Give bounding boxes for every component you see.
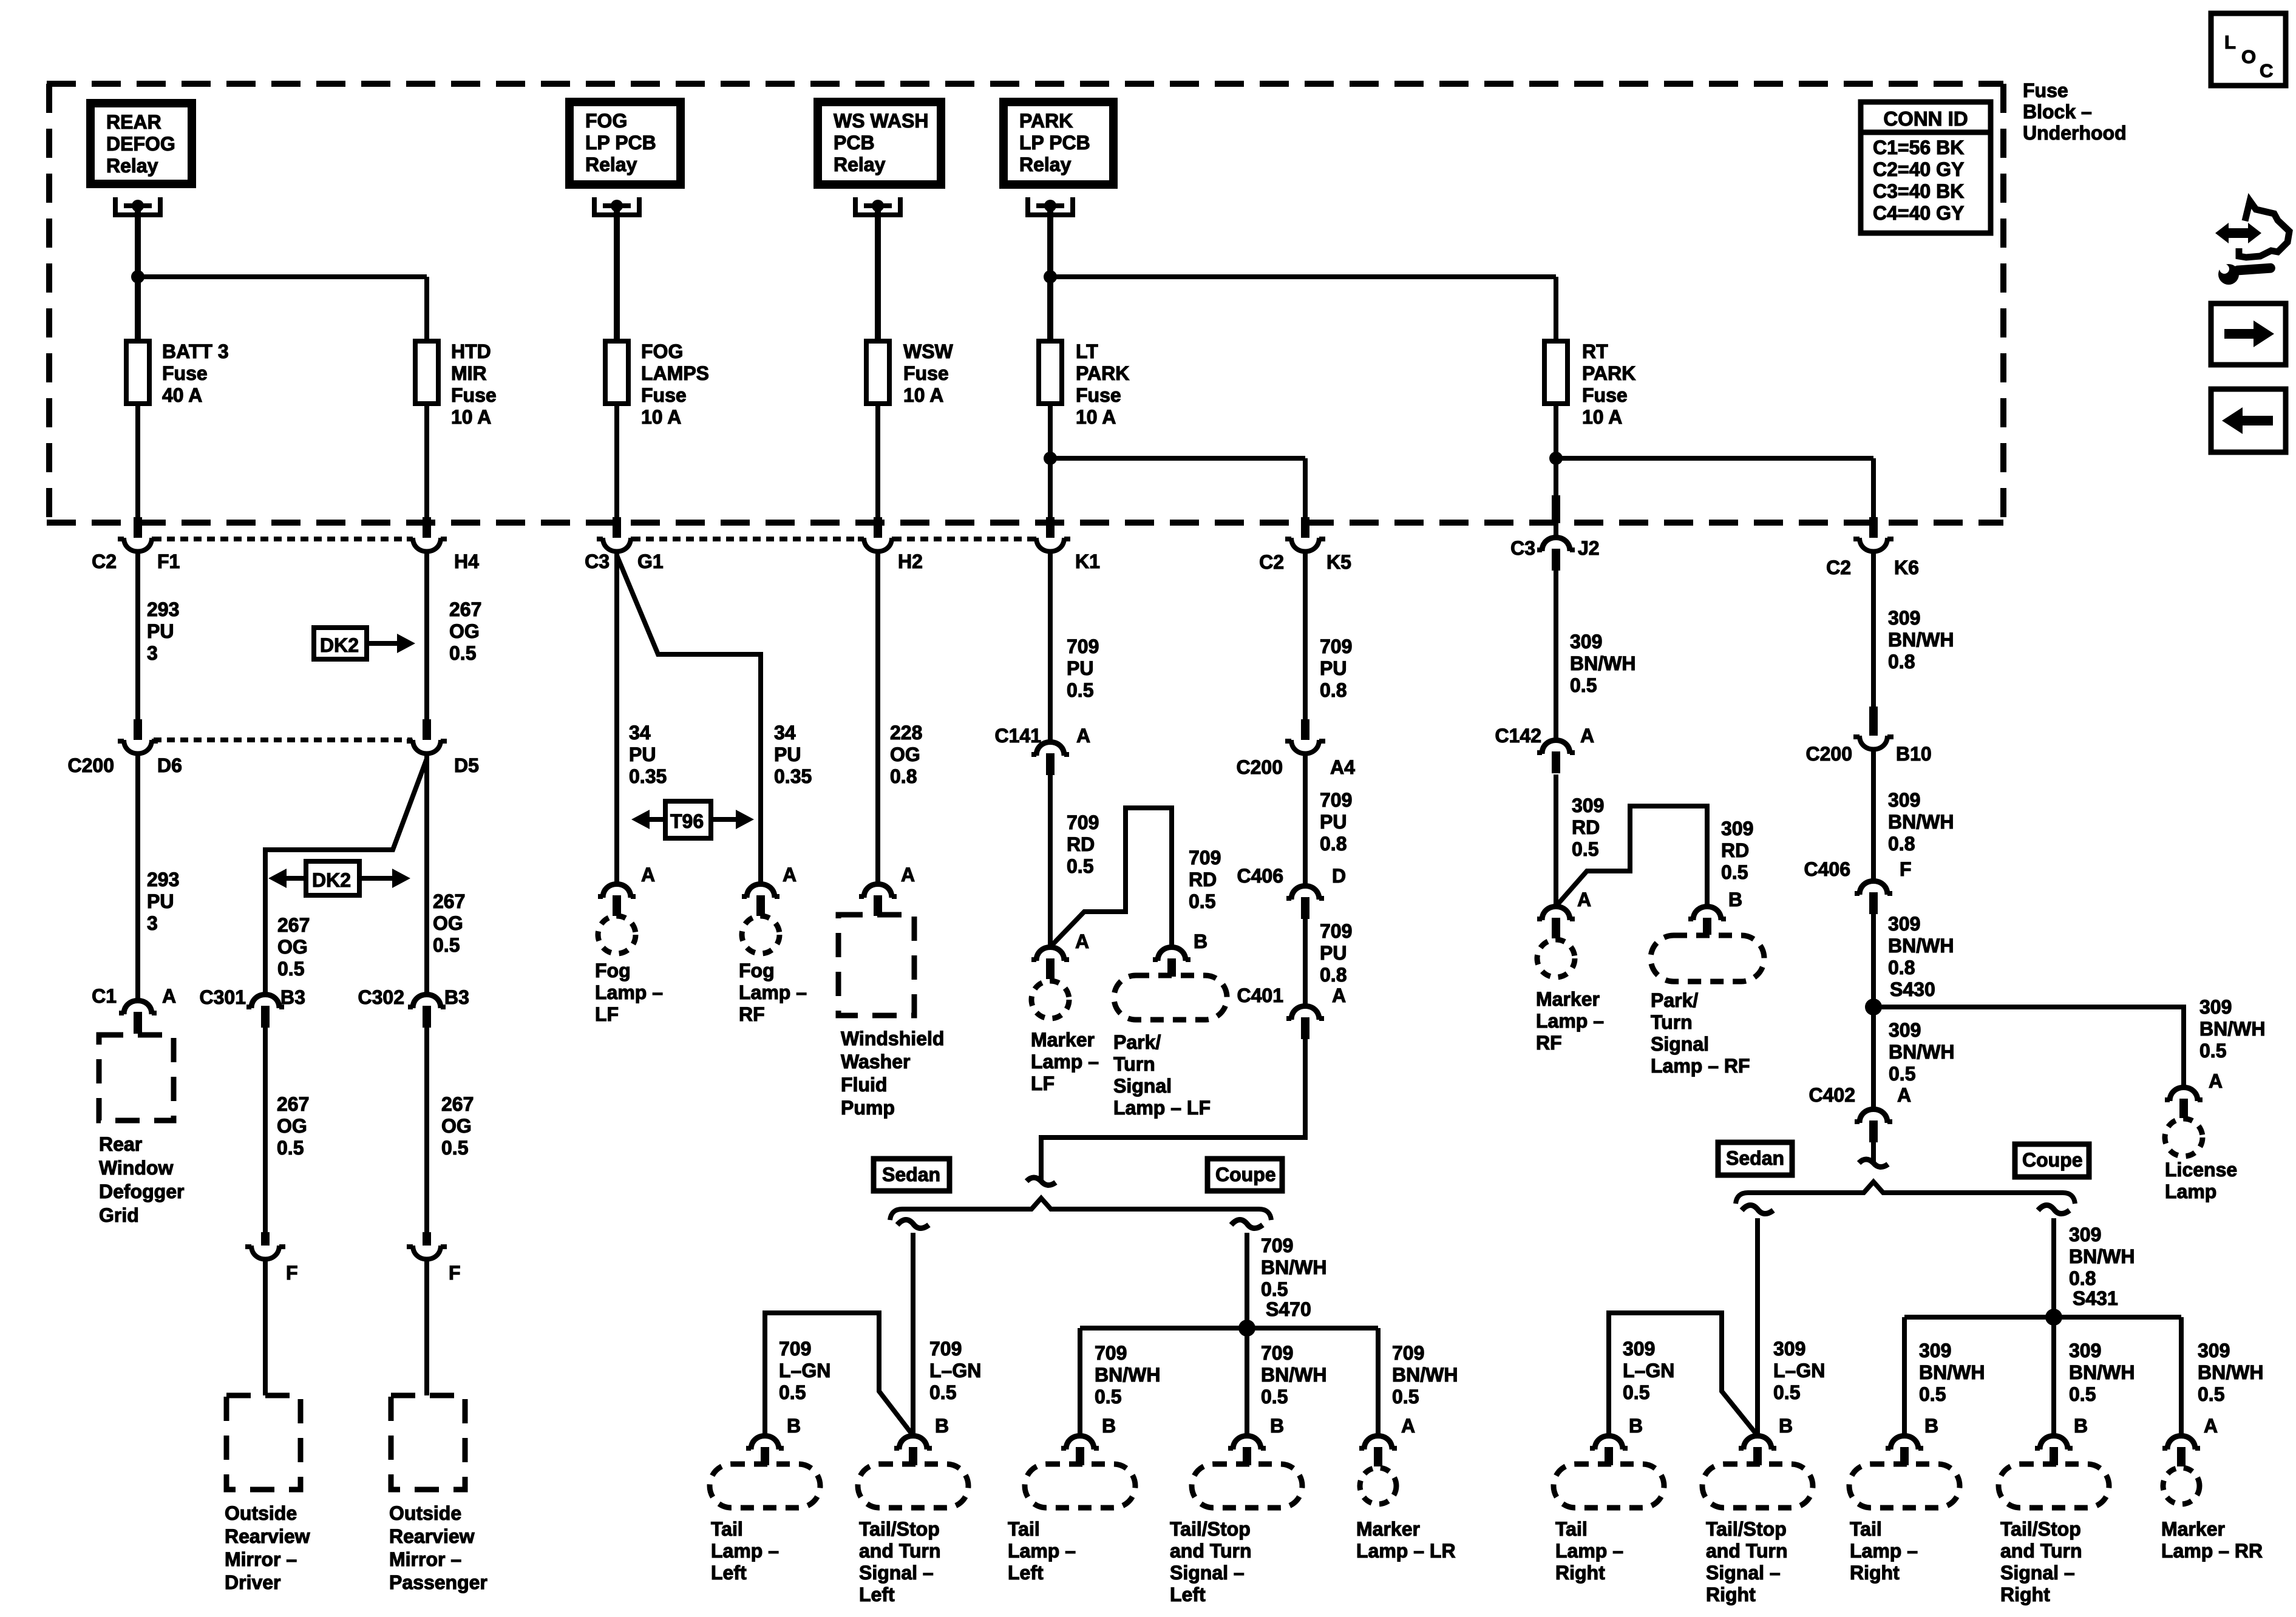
wire C142 to marker lamp RF [1554, 775, 1558, 906]
fuse HTD MIR 10A [415, 341, 438, 404]
svg-text:C401: C401 [1237, 985, 1284, 1006]
svg-text:Underhood: Underhood [2023, 122, 2127, 144]
svg-text:Tail/Stop: Tail/Stop [1706, 1518, 1787, 1540]
svg-text:DK2: DK2 [312, 869, 351, 891]
svg-text:Marker: Marker [1031, 1029, 1095, 1051]
svg-text:O: O [2241, 46, 2256, 67]
svg-text:BN/WH: BN/WH [2069, 1361, 2135, 1383]
svg-text:709: 709 [1392, 1342, 1424, 1364]
svg-text:BN/WH: BN/WH [1888, 629, 1954, 651]
wire 293 PU F1 to C200 D6 [135, 552, 140, 719]
svg-text:BN/WH: BN/WH [1919, 1361, 1985, 1383]
svg-text:Fog: Fog [595, 960, 631, 981]
svg-text:WS WASH: WS WASH [834, 110, 928, 132]
wire REAR DEFOG relay to BATT 3 fuse [135, 208, 141, 341]
break curl coupe drop right [2038, 1205, 2070, 1213]
svg-text:Defogger: Defogger [99, 1181, 184, 1202]
option brace left [890, 1198, 1271, 1220]
svg-text:Sedan: Sedan [882, 1164, 940, 1185]
connector C2 pin K5 [1301, 517, 1309, 538]
svg-text:0.5: 0.5 [779, 1381, 806, 1403]
svg-text:FOG: FOG [641, 341, 683, 362]
dashed line C200 D6-D5 [154, 737, 412, 742]
wire F to driver mirror [263, 1259, 268, 1395]
svg-text:Signal –: Signal – [1706, 1562, 1781, 1584]
svg-text:PU: PU [147, 890, 174, 912]
svg-text:A: A [901, 864, 915, 886]
svg-text:0.5: 0.5 [1572, 838, 1598, 860]
wire LT PARK fuse to K1 [1048, 404, 1053, 520]
svg-text:D5: D5 [454, 754, 479, 776]
wire to tail lamp right coupe [1902, 1317, 1907, 1436]
svg-text:0.5: 0.5 [1623, 1381, 1649, 1403]
svg-text:C1: C1 [92, 985, 117, 1007]
dotted connector line G1-H2 [633, 537, 862, 541]
svg-text:309: 309 [1721, 818, 1753, 839]
svg-text:309: 309 [1773, 1338, 1805, 1360]
svg-text:Tail: Tail [711, 1518, 743, 1540]
svg-text:10 A: 10 A [903, 384, 943, 406]
svg-text:0.5: 0.5 [1721, 861, 1748, 883]
wire S470 to tail stop left coupe [1245, 1328, 1249, 1436]
svg-text:Lamp – LF: Lamp – LF [1113, 1097, 1211, 1119]
svg-text:Pump: Pump [841, 1097, 895, 1119]
junction dot PARK feed [1044, 270, 1057, 283]
svg-text:BN/WH: BN/WH [1888, 811, 1954, 833]
svg-text:C142: C142 [1495, 725, 1542, 747]
connector C301 pin B3 [251, 995, 279, 1009]
wire S431 shelf [1904, 1315, 2181, 1320]
svg-text:PU: PU [147, 620, 174, 642]
connector C141 pin A [1036, 742, 1064, 756]
svg-text:B: B [787, 1415, 801, 1437]
marker DK2 double arrow [306, 861, 359, 895]
svg-text:G1: G1 [637, 551, 664, 572]
svg-text:S431: S431 [2073, 1287, 2118, 1309]
svg-text:Lamp –: Lamp – [711, 1540, 779, 1562]
svg-text:Tail: Tail [1008, 1518, 1040, 1540]
svg-text:Rearview: Rearview [389, 1525, 475, 1547]
wire to tail lamp left coupe [1078, 1328, 1082, 1436]
relay REAR DEFOG [86, 99, 196, 188]
wire S431 to tail stop right coupe [2051, 1317, 2056, 1436]
svg-text:0.5: 0.5 [1067, 855, 1093, 877]
svg-text:709: 709 [929, 1338, 962, 1360]
svg-text:LF: LF [1031, 1073, 1055, 1094]
svg-text:T96: T96 [670, 810, 704, 832]
svg-text:Lamp: Lamp [2165, 1181, 2216, 1202]
relay PARK LP PCB [999, 98, 1118, 189]
fuse WSW 10A [866, 341, 889, 404]
svg-text:A: A [1577, 889, 1591, 910]
svg-text:Signal: Signal [1113, 1075, 1172, 1097]
svg-text:C200: C200 [1806, 743, 1853, 765]
svg-text:0.5: 0.5 [1919, 1383, 1946, 1405]
svg-text:3: 3 [147, 912, 158, 934]
wire HTD MIR fuse to H4 [424, 404, 429, 520]
wire S430 to license lamp [1873, 1007, 2184, 1087]
svg-text:Left: Left [1170, 1584, 1206, 1605]
svg-text:Park/: Park/ [1113, 1031, 1161, 1053]
svg-text:PU: PU [629, 744, 656, 765]
svg-text:267: 267 [449, 598, 481, 620]
wire G1 branch to fog lamp RF [617, 555, 761, 884]
svg-text:and Turn: and Turn [2000, 1540, 2082, 1562]
svg-text:0.5: 0.5 [2199, 1040, 2226, 1062]
connector tail stop turn right sedan [1744, 1436, 1771, 1450]
svg-text:Rearview: Rearview [225, 1525, 310, 1547]
svg-text:B: B [1728, 889, 1742, 910]
svg-text:Signal –: Signal – [1170, 1562, 1245, 1584]
svg-text:C2: C2 [1259, 551, 1284, 573]
wire H2 to washer pump [875, 552, 880, 884]
svg-text:Rear: Rear [99, 1133, 142, 1155]
svg-text:40 A: 40 A [162, 384, 202, 406]
svg-text:Marker: Marker [1356, 1518, 1420, 1540]
connector C200 pin B10 [1869, 707, 1878, 736]
svg-text:BN/WH: BN/WH [2069, 1246, 2135, 1267]
svg-text:309: 309 [1888, 913, 1920, 935]
svg-text:Mirror –: Mirror – [225, 1548, 297, 1570]
wire FOG LAMPS fuse to G1 [614, 404, 619, 520]
relay WS WASH PCB [813, 98, 945, 189]
svg-text:RF: RF [1536, 1032, 1562, 1054]
svg-text:OG: OG [441, 1115, 472, 1137]
svg-text:Coupe: Coupe [1215, 1164, 1276, 1185]
wire RT PARK fuse to J2 [1554, 404, 1558, 520]
junction dot RT PARK branch [1549, 452, 1563, 465]
svg-text:HTD: HTD [451, 341, 491, 362]
splice S430 [1865, 998, 1882, 1015]
fuse BATT 3 40A [126, 341, 149, 404]
marker lamp LR bulb [1360, 1468, 1396, 1504]
svg-text:0.8: 0.8 [1320, 833, 1347, 855]
svg-text:10 A: 10 A [641, 406, 681, 428]
park turn signal lamp RF [1651, 935, 1764, 981]
wire S470 shelf [1080, 1326, 1378, 1331]
svg-text:0.5: 0.5 [441, 1137, 468, 1159]
svg-text:BN/WH: BN/WH [2198, 1361, 2263, 1383]
svg-text:B3: B3 [280, 986, 305, 1008]
connector marker lamp RR [2167, 1436, 2195, 1450]
svg-text:0.8: 0.8 [890, 765, 917, 787]
svg-text:L: L [2224, 32, 2236, 53]
outside rearview mirror passenger box [391, 1395, 465, 1490]
svg-text:A: A [2209, 1070, 2223, 1092]
svg-text:267: 267 [277, 1093, 309, 1115]
svg-text:RD: RD [1572, 816, 1600, 838]
wire WSW fuse to H2 [875, 404, 880, 520]
svg-text:709: 709 [1067, 812, 1099, 833]
svg-text:PARK: PARK [1076, 362, 1129, 384]
connector C3 pin J2 [1552, 495, 1560, 523]
svg-text:BN/WH: BN/WH [1392, 1364, 1458, 1386]
svg-text:709: 709 [1320, 920, 1352, 942]
svg-text:and Turn: and Turn [1170, 1540, 1252, 1562]
svg-text:C200: C200 [1237, 756, 1283, 778]
wire C401 to sedan coupe split [1041, 1039, 1305, 1182]
svg-text:709: 709 [1067, 636, 1099, 657]
terminal F passenger [423, 1232, 431, 1246]
svg-text:C1=56 BK: C1=56 BK [1873, 137, 1964, 158]
wire FOG relay to FOG LAMPS fuse [614, 208, 620, 341]
svg-text:0.8: 0.8 [1320, 679, 1347, 701]
svg-text:L–GN: L–GN [929, 1360, 981, 1381]
svg-text:C302: C302 [358, 986, 405, 1008]
relay FOG LP PCB [565, 98, 685, 189]
connector tail lamp right sedan [1595, 1436, 1623, 1450]
svg-text:309: 309 [2069, 1340, 2101, 1361]
svg-text:Tail/Stop: Tail/Stop [859, 1518, 940, 1540]
connector C2 pin H4 [423, 517, 431, 538]
wire K6 to C200 B10 [1871, 552, 1876, 707]
svg-text:Right: Right [2000, 1584, 2050, 1605]
connector fog lamp RF [747, 884, 775, 898]
svg-text:A: A [783, 864, 796, 886]
svg-text:Turn: Turn [1651, 1011, 1693, 1033]
svg-text:Passenger: Passenger [389, 1571, 487, 1593]
svg-text:Right: Right [1706, 1584, 1756, 1605]
svg-text:CONN ID: CONN ID [1883, 107, 1968, 130]
wire sedan shelf left [765, 1313, 913, 1436]
svg-text:0.5: 0.5 [929, 1381, 956, 1403]
connector C2 pin F1 [134, 517, 142, 538]
svg-text:267: 267 [433, 890, 465, 912]
svg-text:B: B [2074, 1415, 2088, 1437]
svg-text:REAR: REAR [106, 111, 161, 133]
svg-text:Relay: Relay [1019, 154, 1072, 175]
marker lamp RR bulb [2163, 1468, 2199, 1504]
svg-text:Tail/Stop: Tail/Stop [2000, 1518, 2081, 1540]
connector C401 pin A [1291, 1006, 1319, 1020]
svg-text:0.35: 0.35 [774, 765, 812, 787]
svg-text:H4: H4 [454, 551, 479, 572]
wire WS WASH relay to WSW fuse [875, 208, 881, 341]
svg-text:Lamp –: Lamp – [739, 981, 807, 1003]
wire D5 branch to C301 [265, 759, 427, 994]
svg-text:D6: D6 [157, 754, 182, 776]
svg-text:K1: K1 [1075, 551, 1100, 572]
svg-text:RT: RT [1582, 341, 1608, 362]
svg-text:309: 309 [1919, 1340, 1951, 1361]
svg-text:309: 309 [2199, 996, 2232, 1018]
svg-text:309: 309 [1570, 631, 1602, 653]
svg-text:0.5: 0.5 [2198, 1383, 2224, 1405]
svg-text:0.5: 0.5 [1889, 1063, 1915, 1085]
connector C200 pin A4 [1301, 719, 1309, 740]
svg-text:Grid: Grid [99, 1204, 139, 1226]
fuse LT PARK 10A [1039, 341, 1062, 404]
wire feed to HTD MIR fuse [138, 274, 427, 279]
svg-text:C2: C2 [1826, 557, 1851, 578]
wire coupe drop left to S470 [1245, 1233, 1249, 1328]
svg-text:Relay: Relay [834, 154, 886, 175]
svg-text:309: 309 [2069, 1224, 2101, 1246]
svg-text:0.5: 0.5 [277, 1137, 304, 1159]
tail stop turn signal right sedan [1702, 1464, 1813, 1508]
connector C402 pin A [1860, 1110, 1887, 1124]
svg-text:C3=40 BK: C3=40 BK [1873, 180, 1964, 202]
fuse FOG LAMPS 10A [605, 341, 628, 404]
connector license lamp [2170, 1088, 2198, 1102]
svg-text:Coupe: Coupe [2022, 1149, 2083, 1171]
connector C3 pin H2 [874, 517, 882, 538]
svg-text:A: A [1897, 1084, 1911, 1106]
svg-text:Lamp –: Lamp – [1850, 1540, 1918, 1562]
svg-text:A: A [2204, 1415, 2218, 1437]
svg-text:BN/WH: BN/WH [1095, 1364, 1160, 1386]
svg-text:Outside: Outside [389, 1502, 461, 1524]
svg-text:RF: RF [739, 1003, 765, 1025]
connector C302 pin B3 [413, 995, 441, 1009]
svg-text:Fuse: Fuse [903, 362, 949, 384]
marker T96 double arrow [665, 801, 711, 838]
svg-text:C200: C200 [68, 754, 115, 776]
svg-text:BN/WH: BN/WH [1888, 935, 1954, 957]
svg-text:L–GN: L–GN [1773, 1360, 1825, 1381]
svg-text:309: 309 [1888, 789, 1920, 811]
svg-text:0.5: 0.5 [1392, 1386, 1419, 1408]
break curl feed right [1859, 1159, 1888, 1167]
svg-text:0.8: 0.8 [1888, 833, 1915, 855]
connector park turn signal lamp RF [1693, 907, 1721, 921]
svg-text:BN/WH: BN/WH [1889, 1041, 1954, 1063]
svg-text:D: D [1332, 865, 1346, 887]
wire A4 to C406 [1303, 754, 1308, 886]
windshield washer fluid pump box [838, 915, 914, 1015]
svg-text:BN/WH: BN/WH [1261, 1364, 1326, 1386]
label box Sedan left [874, 1159, 949, 1191]
connector tail stop turn left coupe [1233, 1436, 1261, 1450]
svg-text:DK2: DK2 [320, 634, 359, 656]
svg-text:C: C [2260, 60, 2273, 81]
label box Sedan right [1718, 1142, 1792, 1175]
wire RT PARK branch to K6 [1556, 456, 1873, 461]
svg-text:267: 267 [441, 1093, 474, 1115]
svg-text:Lamp – RR: Lamp – RR [2161, 1540, 2263, 1562]
svg-text:Lamp –: Lamp – [1031, 1051, 1099, 1073]
tail lamp left coupe [1025, 1464, 1135, 1508]
svg-text:10 A: 10 A [451, 406, 491, 428]
CONN ID table [1861, 102, 1991, 233]
svg-text:0.8: 0.8 [1888, 957, 1915, 978]
svg-text:Block –: Block – [2023, 101, 2092, 123]
svg-text:10 A: 10 A [1582, 406, 1622, 428]
wire sedan drop right [1755, 1218, 1760, 1436]
svg-text:0.5: 0.5 [1095, 1386, 1121, 1408]
wire branch to park turn RF [1556, 806, 1707, 906]
svg-text:293: 293 [147, 598, 179, 620]
wire K1 to C141 [1048, 552, 1053, 742]
svg-text:0.8: 0.8 [2069, 1267, 2096, 1289]
svg-text:OG: OG [277, 936, 308, 958]
svg-text:PARK: PARK [1582, 362, 1635, 384]
svg-text:Lamp –: Lamp – [595, 981, 663, 1003]
wire to marker lamp RR [2179, 1317, 2184, 1436]
wire G1 to fog lamp LF [614, 552, 619, 884]
svg-text:B: B [1102, 1415, 1116, 1437]
connector C406 pin F [1860, 881, 1887, 895]
svg-text:309: 309 [1888, 607, 1920, 629]
svg-text:Marker: Marker [1536, 988, 1600, 1010]
svg-text:C4=40 GY: C4=40 GY [1873, 202, 1964, 224]
svg-text:BN/WH: BN/WH [2199, 1018, 2265, 1040]
connector C200 pin D5 [423, 719, 431, 740]
svg-text:709: 709 [779, 1338, 811, 1360]
svg-text:F: F [286, 1262, 298, 1284]
svg-text:B: B [1194, 931, 1207, 952]
label box Coupe left [1207, 1159, 1282, 1191]
wire PARK relay to LT PARK fuse [1047, 208, 1053, 341]
svg-text:Window: Window [99, 1157, 173, 1179]
svg-text:FOG: FOG [585, 110, 627, 132]
wire feed to RT PARK fuse [1050, 274, 1556, 279]
svg-text:0.5: 0.5 [277, 958, 304, 980]
wire branch to park turn LF [1050, 808, 1172, 947]
svg-text:C3: C3 [1510, 537, 1535, 559]
svg-text:709: 709 [1261, 1342, 1293, 1364]
svg-text:309: 309 [1889, 1019, 1921, 1041]
connector marker lamp LR [1364, 1436, 1392, 1450]
svg-text:Left: Left [1008, 1562, 1044, 1584]
connector C1 pin A rear defogger [124, 1001, 152, 1015]
wire to marker lamp LR [1376, 1328, 1381, 1436]
connector tail lamp left coupe [1066, 1436, 1094, 1450]
connector C2 pin K6 [1869, 517, 1878, 538]
svg-text:A: A [1401, 1415, 1415, 1437]
svg-text:F1: F1 [157, 551, 180, 572]
svg-text:LF: LF [595, 1003, 619, 1025]
svg-text:0.5: 0.5 [1189, 890, 1215, 912]
svg-text:PU: PU [1320, 657, 1347, 679]
svg-text:709: 709 [1320, 636, 1352, 657]
svg-text:F: F [1900, 858, 1912, 880]
svg-text:34: 34 [774, 722, 796, 744]
svg-text:C402: C402 [1809, 1084, 1856, 1106]
svg-text:LAMPS: LAMPS [641, 362, 709, 384]
svg-text:A: A [1580, 725, 1594, 747]
svg-text:B: B [1270, 1415, 1284, 1437]
wire S430 to C402 [1871, 1007, 1876, 1109]
svg-text:0.35: 0.35 [629, 765, 667, 787]
svg-text:LP PCB: LP PCB [585, 132, 656, 154]
svg-text:A: A [162, 985, 176, 1007]
svg-text:LP PCB: LP PCB [1019, 132, 1090, 154]
svg-text:RD: RD [1067, 833, 1095, 855]
svg-text:Fluid: Fluid [841, 1074, 887, 1096]
connector C406 pin D [1291, 886, 1319, 900]
wire K5 to C200 A4 [1303, 552, 1308, 719]
terminal F driver [261, 1232, 270, 1246]
connector C3 pin K1 [1046, 517, 1055, 538]
connector C200 pin D6 [134, 719, 142, 740]
connector tail lamp right coupe [1890, 1436, 1918, 1450]
tail stop turn signal right coupe [1999, 1464, 2109, 1508]
svg-text:Fuse: Fuse [162, 362, 208, 384]
svg-text:Lamp –: Lamp – [1555, 1540, 1623, 1562]
wire C402 to sedan coupe split right [1871, 1142, 1876, 1164]
svg-text:B10: B10 [1896, 743, 1932, 765]
svg-text:293: 293 [147, 869, 179, 890]
break curl sedan drop left [897, 1219, 929, 1228]
svg-text:309: 309 [2198, 1340, 2230, 1361]
svg-text:0.5: 0.5 [1570, 674, 1597, 696]
svg-text:OG: OG [433, 912, 463, 934]
svg-text:A: A [641, 864, 655, 886]
svg-text:709: 709 [1189, 847, 1221, 869]
svg-text:A: A [1075, 931, 1089, 952]
splice S431 [2045, 1309, 2062, 1326]
